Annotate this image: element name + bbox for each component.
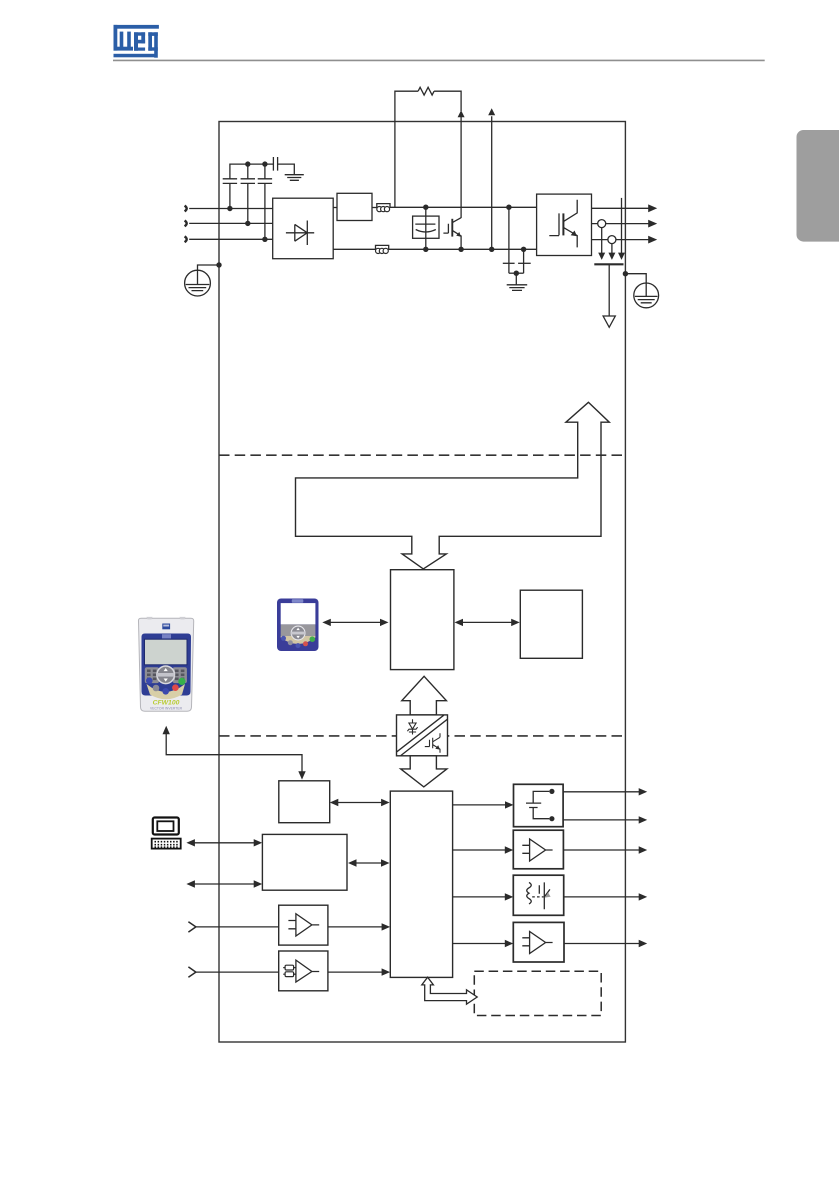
header rule xyxy=(113,59,765,61)
capacitor C3 plates xyxy=(258,179,272,184)
capacitor C1 lower stem xyxy=(229,183,231,208)
down arrow driver to IO board xyxy=(401,756,447,787)
wire rectifier to choke L2 xyxy=(333,248,376,250)
junction dot input cap C2 xyxy=(245,221,250,226)
arrowhead to fieldbus down xyxy=(298,771,305,779)
inverter block xyxy=(537,194,592,255)
drop wire 1 arrowhead xyxy=(598,253,605,260)
arrowhead aux right xyxy=(254,880,263,887)
input phase S chevron xyxy=(185,221,187,227)
digital output block xyxy=(513,875,563,915)
freq out wire xyxy=(564,943,640,945)
elbow arrow CPU to expansion xyxy=(422,977,477,1004)
earth ground E2 xyxy=(507,285,528,291)
drop wire 2 arrowhead xyxy=(608,253,615,260)
capacitor C2 stem xyxy=(264,164,266,179)
arrowhead to CPU left xyxy=(381,859,390,866)
arrowhead to fieldbus xyxy=(330,799,339,806)
input phase T chevron xyxy=(185,236,187,242)
junction dot cap bus 2 xyxy=(262,161,267,166)
arrowhead to control xyxy=(455,619,464,626)
wire C4 to earth xyxy=(278,164,295,174)
junction dot left PE xyxy=(216,262,221,267)
RFI filter cap bus wire xyxy=(230,164,274,179)
braking resistor R1 zigzag xyxy=(418,87,434,95)
current sensor CT2 xyxy=(608,236,616,244)
wire serial to CPU xyxy=(352,862,387,864)
braking IGBT Q1 gate xyxy=(443,224,448,233)
DC link capacitor stem xyxy=(425,207,427,249)
DC link capacitor block xyxy=(413,216,439,238)
analog output op-amp xyxy=(522,839,552,861)
wire phase R xyxy=(189,208,273,210)
relay contact symbol xyxy=(526,791,549,818)
capacitor C1 stem xyxy=(247,164,249,179)
input phase R chevron xyxy=(185,206,187,212)
analog input 2 block xyxy=(279,951,328,991)
dashed separator power/control xyxy=(219,454,625,456)
+UD terminal arrowhead xyxy=(488,108,495,115)
WEG logo xyxy=(114,25,159,58)
junction dot right PE xyxy=(623,271,628,276)
capacitor C2 lower stem xyxy=(247,183,249,223)
Y-cap A plate xyxy=(503,262,515,264)
analog input 2 op-amp xyxy=(294,960,320,982)
wire +UD terminal xyxy=(491,116,493,249)
central IO CPU block xyxy=(390,791,452,977)
wire CPU to relay block xyxy=(453,804,511,806)
wire phase S xyxy=(189,222,273,224)
side tab xyxy=(797,130,839,242)
junction dot DC- at cap xyxy=(423,247,428,252)
wire BR terminal down to chopper xyxy=(460,117,462,218)
BR terminal arrowhead xyxy=(458,110,465,117)
frequency output block xyxy=(513,922,564,962)
Y-cap ground stem xyxy=(515,273,517,284)
arrowhead relay xyxy=(505,801,514,808)
current sensor drop wire 1 xyxy=(601,228,603,254)
keypad HMI built-in xyxy=(277,599,319,652)
power-flow channel with up arrow and down arrow xyxy=(296,402,610,569)
junction dot input cap C1 xyxy=(227,206,232,211)
braking IGBT Q1 collector xyxy=(452,218,461,223)
junction dot Y-cap ground xyxy=(514,271,519,276)
serial interface block xyxy=(262,834,347,890)
junction dot DC+ at Y-cap xyxy=(506,205,511,210)
memory module block xyxy=(520,590,582,658)
output U arrowhead xyxy=(648,204,657,212)
digital output coil-transistor symbol xyxy=(527,882,532,904)
braking IGBT Q1 emitter xyxy=(452,230,461,249)
remote keypad HMI external xyxy=(138,617,193,711)
braking resistor loop right branch xyxy=(434,91,461,111)
analog input 1 op-amp xyxy=(288,914,319,936)
analog input 2 chevron xyxy=(188,967,196,977)
wire phase T xyxy=(189,238,273,240)
junction dot DC- at UD wire xyxy=(489,247,494,252)
driver zener diode symbol xyxy=(407,719,417,734)
arrowhead to CPU xyxy=(381,799,390,806)
braking IGBT emitter arrowhead xyxy=(456,232,461,237)
digital out wire xyxy=(564,896,640,898)
capacitor C4 series plates xyxy=(273,157,277,171)
junction dot DC+ at cap xyxy=(423,205,428,210)
arrowhead to keypad xyxy=(322,619,331,626)
svg-text:VECTOR INVERTER: VECTOR INVERTER xyxy=(150,707,183,711)
fieldbus accessory block xyxy=(279,781,330,823)
precharge block xyxy=(337,193,372,220)
analog out wire xyxy=(563,849,640,851)
wire rectifier to precharge xyxy=(333,207,337,209)
wire serial aux left xyxy=(190,883,258,885)
analog output block xyxy=(513,830,563,869)
Y-cap bottom bus xyxy=(509,272,524,274)
arrowhead aux left xyxy=(186,880,195,887)
inverter IGBT emitter xyxy=(563,227,577,247)
current sensor drop wire 3 xyxy=(621,198,623,253)
arrowhead to memory xyxy=(511,619,520,626)
arrowhead analog 2 xyxy=(382,968,391,975)
isolation diagonal band xyxy=(397,715,448,755)
rectifier diode symbol xyxy=(286,221,314,246)
Y-cap stem A from DC+ xyxy=(508,207,510,273)
wire CPU to freq out block xyxy=(453,943,510,945)
expansion dashed block xyxy=(474,971,601,1015)
junction dot input cap C3 xyxy=(262,237,267,242)
shield open arrow xyxy=(603,316,615,327)
inverter IGBT gate xyxy=(549,213,559,235)
drop wire 3 arrowhead xyxy=(618,253,625,260)
junction dot DC- at Y-cap xyxy=(521,247,526,252)
relay output block xyxy=(514,784,564,826)
arrowhead to PC xyxy=(186,839,195,846)
inverter IGBT body xyxy=(562,213,564,235)
wire analog 1 to CPU xyxy=(328,926,387,928)
Y-cap stem B from DC- xyxy=(523,249,525,273)
DC link capacitor symbol xyxy=(415,224,436,232)
Y-cap B plate xyxy=(518,262,531,264)
DC choke L1 xyxy=(377,207,382,212)
braking IGBT Q1 body xyxy=(451,219,453,237)
arrowhead to serial right xyxy=(348,859,357,866)
wire CPU to DO block xyxy=(453,896,510,898)
wire control to memory xyxy=(458,621,516,623)
analog input 1 chevron xyxy=(188,922,196,932)
capacitor C3 lower stem xyxy=(264,183,266,239)
wire analog input 2 xyxy=(196,971,279,973)
inverter IGBT collector xyxy=(563,200,577,222)
inverter IGBT emitter arrowhead xyxy=(571,231,577,237)
PE shield bar xyxy=(594,263,623,265)
rectifier block xyxy=(273,198,334,259)
junction dot cap bus 1 xyxy=(245,161,250,166)
frequency output op-amp xyxy=(522,932,552,954)
analog input 1 block xyxy=(279,905,328,945)
dashed separator control/IO xyxy=(219,735,625,737)
driver IGBT symbol xyxy=(425,733,440,752)
analog input 2 connector squares xyxy=(285,965,294,970)
wire keypad to control xyxy=(326,621,385,623)
wire CPU to analog out block xyxy=(453,849,510,851)
wire remote keypad to fieldbus module xyxy=(166,734,302,773)
control board CC11 block xyxy=(391,570,454,670)
wire fieldbus to CPU xyxy=(333,802,386,804)
junction dot DC- at chopper xyxy=(458,247,463,252)
arrowhead to control left xyxy=(380,619,389,626)
arrowhead to keypad up xyxy=(163,726,170,734)
current sensor drop wire 2 xyxy=(611,244,613,254)
wire precharge to choke xyxy=(372,207,377,209)
wire left border to PE circle xyxy=(198,265,220,270)
braking resistor loop left branch xyxy=(395,91,418,207)
wire right border to PE circle xyxy=(625,274,646,283)
shield stem wire xyxy=(608,264,610,316)
wire DC+ bus xyxy=(390,206,537,208)
arrowhead to serial xyxy=(254,839,263,846)
earth ground E1 xyxy=(285,175,304,181)
up arrow control to driver xyxy=(402,676,447,715)
PE ground circle left xyxy=(185,270,211,296)
PE ground circle right xyxy=(634,283,659,308)
current sensor CT1 xyxy=(598,220,606,228)
inverter enclosure outer box xyxy=(219,122,625,1043)
relay out wire 1 xyxy=(563,791,640,793)
gate driver isolation block xyxy=(397,715,448,756)
wire analog 2 to CPU xyxy=(328,971,387,973)
DC choke L2 xyxy=(376,248,381,253)
output wire W xyxy=(592,239,650,241)
output V arrowhead xyxy=(648,220,657,228)
svg-text:CFW100: CFW100 xyxy=(153,700,180,707)
capacitor C2 plates xyxy=(241,179,255,184)
output W arrowhead xyxy=(648,236,657,244)
PC icon xyxy=(152,818,181,849)
output wire U xyxy=(592,207,650,209)
wire DC- bus xyxy=(388,248,536,250)
arrowhead analog 1 xyxy=(382,923,391,930)
wire analog input 1 xyxy=(196,926,279,928)
relay out wire 2 xyxy=(563,819,640,821)
wire PC to serial interface xyxy=(190,842,258,844)
output wire V xyxy=(592,223,650,225)
capacitor C1 plates xyxy=(223,179,237,184)
